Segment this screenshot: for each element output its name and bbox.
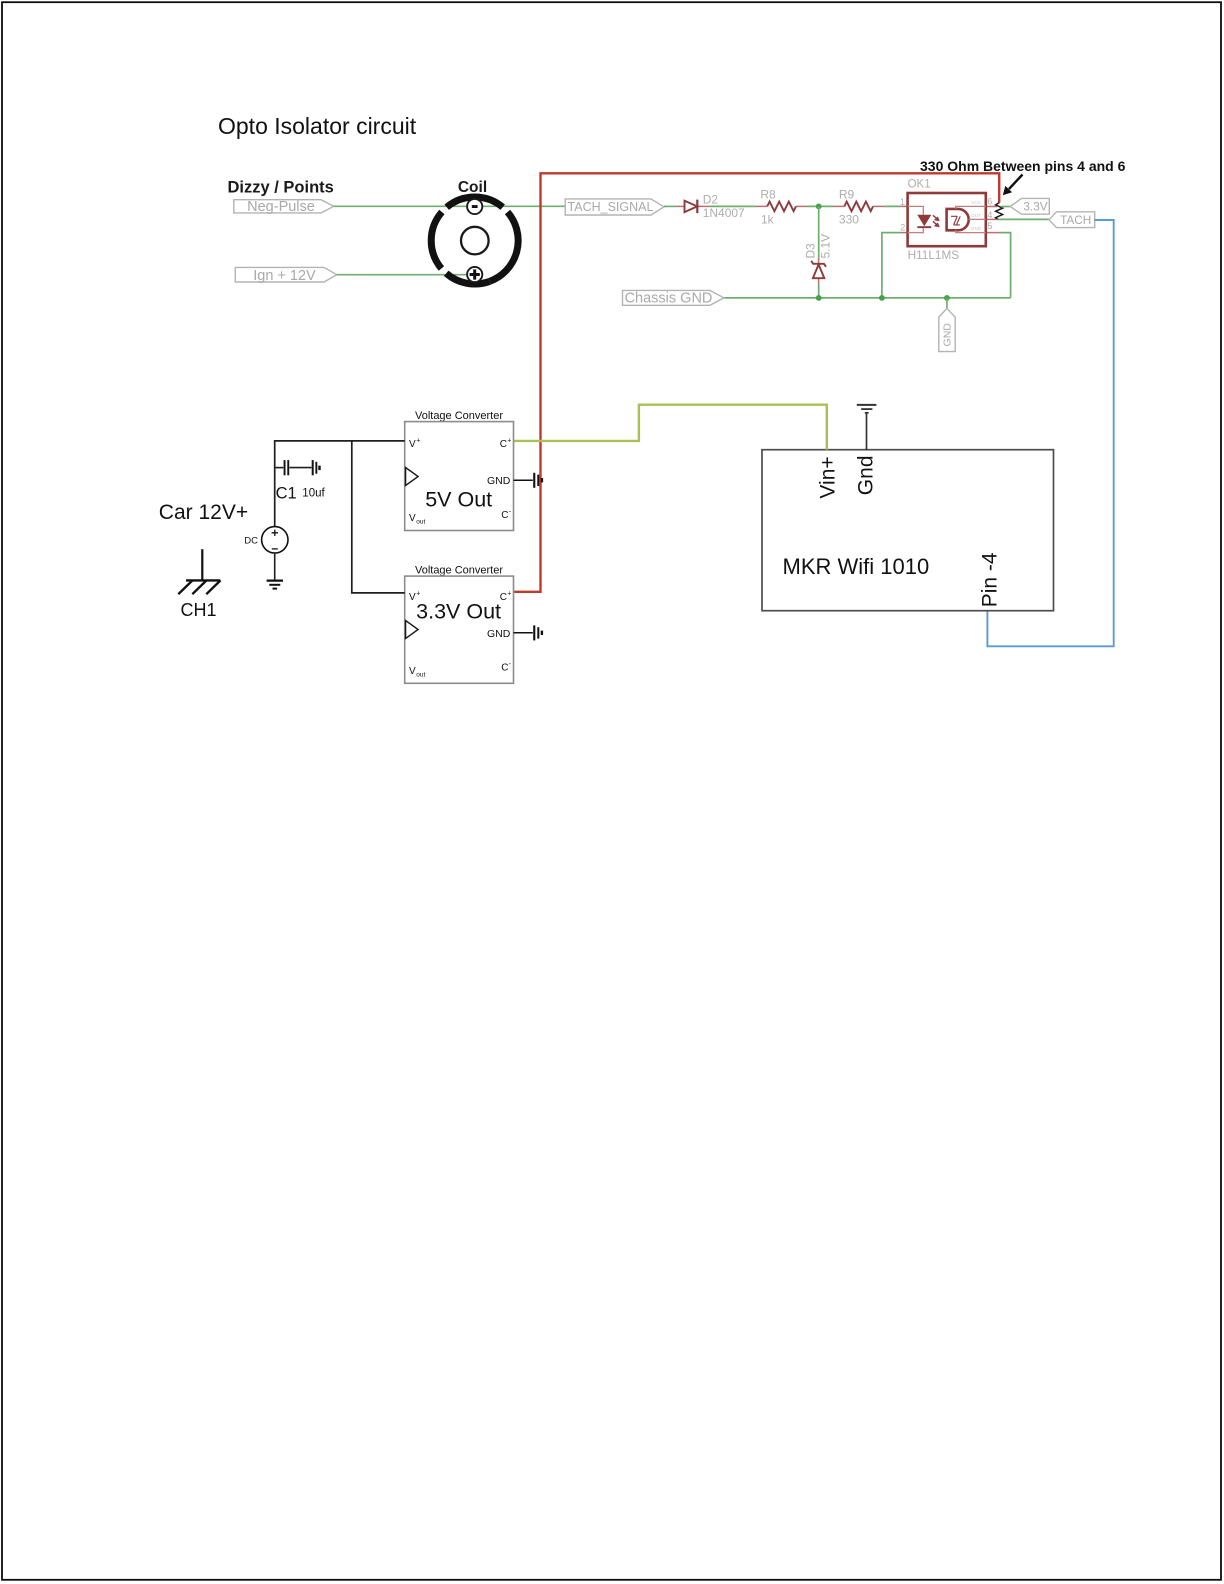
svg-text:MKR Wifi 1010: MKR Wifi 1010 (783, 554, 930, 579)
DC source (244, 527, 288, 553)
svg-text:+: + (507, 591, 511, 598)
net flag Ign + 12V (235, 267, 336, 284)
resistor 330 Ohm between pins 4 and 6 (996, 203, 1003, 220)
annotation arrow (1003, 175, 1023, 196)
wire junction to D3 (818, 206, 820, 258)
svg-text:Neg-Pulse: Neg-Pulse (247, 199, 315, 215)
svg-text:GND: GND (941, 323, 953, 347)
chassis ground CH1 (178, 549, 220, 620)
svg-text:GND: GND (487, 475, 511, 487)
svg-text:VCC: VCC (971, 200, 981, 205)
svg-text:Pin -4: Pin -4 (979, 552, 1002, 607)
wire R9 to opto pin 1 (883, 205, 900, 207)
svg-text:Voltage Converter: Voltage Converter (415, 564, 503, 576)
wire 12V branch to 3.3V converter V+ (352, 441, 405, 593)
svg-text:6: 6 (987, 197, 992, 207)
svg-text:330 Ohm Between pins 4 and 6: 330 Ohm Between pins 4 and 6 (920, 158, 1126, 174)
svg-text:330: 330 (839, 212, 859, 226)
MKR Wifi 1010 module U2 (762, 450, 1054, 611)
svg-text:+: + (416, 438, 420, 445)
svg-text:Car 12V+: Car 12V+ (159, 501, 248, 524)
svg-text:CH1: CH1 (181, 600, 217, 620)
svg-text:2: 2 (900, 223, 905, 233)
svg-text:Chassis GND: Chassis GND (625, 291, 713, 307)
earth ground below DC source (267, 581, 283, 589)
svg-text:C: C (501, 510, 508, 521)
junction node at R8/R9/D3 (816, 204, 822, 210)
net flag 3.3V (1010, 198, 1049, 214)
svg-text:1N4007: 1N4007 (703, 206, 745, 220)
svg-text:Opto Isolator circuit: Opto Isolator circuit (218, 113, 417, 139)
svg-text:3.3V Out: 3.3V Out (416, 600, 501, 624)
svg-text:GND: GND (971, 226, 982, 231)
coil symbol (431, 197, 518, 284)
svg-text:5.1V: 5.1V (819, 234, 833, 259)
svg-text:Gnd: Gnd (855, 455, 878, 495)
svg-text:1k: 1k (761, 212, 775, 226)
svg-text:TACH: TACH (1060, 213, 1091, 227)
wire opto pin 2 to ground (882, 233, 901, 298)
wire opto pin 5 to ground (999, 233, 1011, 298)
label Car 12V+ (159, 501, 248, 524)
wire MKR Gnd to ground symbol (866, 414, 868, 451)
svg-text:OK1: OK1 (908, 179, 931, 191)
net flag TACH (1049, 212, 1095, 228)
svg-text:R9: R9 (839, 187, 855, 201)
diode D2 1N4007 (676, 192, 745, 220)
voltage converter 5V U3 (405, 410, 543, 531)
svg-text:H11L1MS: H11L1MS (908, 248, 960, 262)
wire TACH_SIGNAL to D2 (664, 205, 676, 207)
svg-text:V: V (409, 513, 416, 524)
svg-text:4: 4 (987, 210, 992, 220)
wire 12V to 5V converter V+ (275, 441, 405, 527)
wire DC source to earth ground (274, 553, 276, 580)
svg-text:GND: GND (487, 628, 511, 640)
svg-text:Coil: Coil (458, 179, 487, 196)
wire R8 to R9 through node (807, 205, 834, 207)
wire D3 to chassis gnd line (818, 285, 820, 298)
net flag TACH_SIGNAL (565, 199, 664, 215)
resistor R9 330 (833, 187, 883, 226)
svg-text:out: out (416, 519, 425, 526)
svg-text:10uf: 10uf (302, 488, 325, 500)
svg-text:Dizzy / Points: Dizzy / Points (228, 179, 334, 197)
svg-text:D2: D2 (703, 192, 719, 206)
power flag GND (939, 308, 955, 351)
svg-text:3.3V: 3.3V (1023, 200, 1047, 214)
annotation 330 Ohm Between pins 4 and 6 (920, 158, 1126, 174)
svg-text:R8: R8 (760, 187, 776, 201)
zener diode D3 5.1V (804, 234, 833, 285)
svg-text:V: V (409, 592, 416, 603)
svg-text:out: out (416, 672, 425, 679)
title text (218, 113, 417, 139)
wire Neg-Pulse to coil minus (334, 205, 467, 207)
svg-text:V: V (409, 666, 416, 677)
resistor R8 1k (756, 187, 807, 226)
svg-text:Ign + 12V: Ign + 12V (253, 268, 316, 284)
wire 5V out to MKR Vin+ (yellow-green) (514, 405, 827, 450)
wire 3.3V net red from converter to 330 resistor (514, 173, 1000, 592)
svg-text:D3: D3 (804, 243, 818, 259)
label Coil (458, 179, 487, 196)
svg-text:C1: C1 (276, 484, 297, 502)
svg-text:C: C (500, 439, 507, 450)
wire D2 to R8 (710, 205, 756, 207)
wire pin 4 to TACH flag (997, 218, 1049, 220)
svg-text:DC: DC (244, 535, 258, 546)
svg-text:V: V (409, 439, 416, 450)
svg-text:+: + (507, 438, 511, 445)
svg-text:TACH_SIGNAL: TACH_SIGNAL (568, 200, 654, 214)
wire Ign+12V to coil plus (337, 274, 474, 276)
junction at D3 on ground line (816, 295, 822, 301)
svg-text:OUT: OUT (971, 213, 981, 218)
wire stub to GND flag (946, 298, 948, 308)
label Dizzy / Points (228, 179, 334, 197)
voltage converter 3.3V U4 (405, 564, 543, 683)
svg-text:Vin+: Vin+ (817, 456, 840, 498)
svg-text:1: 1 (900, 197, 905, 207)
wire resistor top to 3.3V flag (1001, 206, 1010, 208)
wire chassis ground line (724, 297, 1011, 299)
svg-text:5V Out: 5V Out (425, 488, 492, 512)
svg-text:C: C (501, 663, 508, 674)
junction at pin2 branch on ground line (879, 295, 885, 301)
net flag Chassis GND (623, 290, 724, 306)
ground symbol above MKR Gnd (857, 405, 877, 413)
svg-text:Voltage Converter: Voltage Converter (415, 410, 503, 422)
opto-isolator OK1 H11L1MS (900, 179, 1000, 262)
svg-text:5: 5 (987, 221, 992, 231)
net flag Neg-Pulse (234, 199, 334, 215)
capacitor C1 10uf (275, 460, 326, 502)
svg-text:+: + (416, 591, 420, 598)
wire TACH to MKR Pin-4 blue (987, 220, 1113, 646)
junction at GND flag on ground line (944, 295, 950, 301)
wire coil to TACH_SIGNAL (482, 205, 565, 207)
